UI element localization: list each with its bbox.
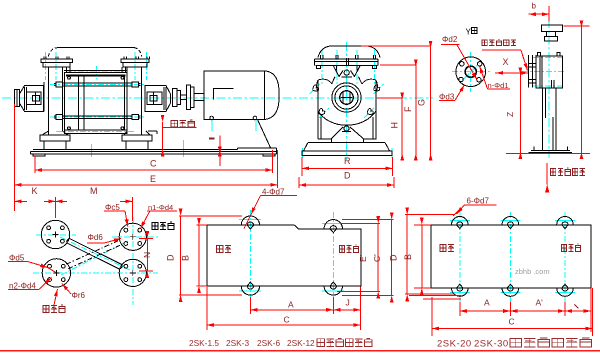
svg-text:2SK-12: 2SK-12 xyxy=(287,338,315,348)
svg-text:E: E xyxy=(150,174,156,184)
svg-text:6-Φd7: 6-Φd7 xyxy=(467,197,490,206)
svg-text:Z: Z xyxy=(505,112,515,117)
svg-text:Φr6: Φr6 xyxy=(72,291,86,300)
svg-text:C: C xyxy=(509,317,515,327)
svg-text:2SK-6: 2SK-6 xyxy=(257,338,280,348)
svg-text:H: H xyxy=(390,122,400,129)
svg-text:2SK-20: 2SK-20 xyxy=(437,339,472,350)
svg-text:B: B xyxy=(181,255,191,261)
svg-text:C: C xyxy=(284,315,290,325)
svg-text:K: K xyxy=(32,186,38,196)
svg-text:F: F xyxy=(403,106,413,112)
svg-text:A: A xyxy=(288,300,294,310)
svg-text:b: b xyxy=(532,2,537,11)
svg-text:C: C xyxy=(150,159,157,169)
svg-text:M: M xyxy=(90,186,98,196)
svg-text:B: B xyxy=(403,254,413,260)
svg-text:C': C' xyxy=(372,254,382,262)
svg-text:X: X xyxy=(503,57,509,67)
svg-text:2SK-1.5: 2SK-1.5 xyxy=(189,338,219,348)
svg-text:J: J xyxy=(346,298,350,308)
svg-text:D: D xyxy=(344,171,351,181)
svg-text:A': A' xyxy=(536,298,544,308)
svg-text:A: A xyxy=(484,298,490,308)
svg-text:Φd6: Φd6 xyxy=(88,233,104,242)
svg-text:zbhb .com: zbhb .com xyxy=(515,267,550,276)
svg-text:G: G xyxy=(417,99,427,106)
svg-text:E': E' xyxy=(358,254,368,262)
svg-text:2SK-3: 2SK-3 xyxy=(226,338,249,348)
svg-text:D: D xyxy=(389,254,399,261)
svg-text:R: R xyxy=(344,156,351,166)
svg-text:Y: Y xyxy=(466,28,472,37)
svg-text:2SK-30: 2SK-30 xyxy=(474,339,509,350)
svg-text:Φd2: Φd2 xyxy=(442,35,458,44)
svg-text:D: D xyxy=(166,254,176,261)
svg-text:N: N xyxy=(142,252,152,258)
